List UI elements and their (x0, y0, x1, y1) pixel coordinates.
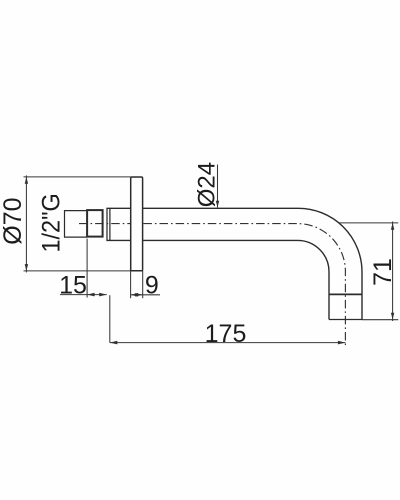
dim 9 line (131, 294, 160, 296)
arrowhead 71 bottom (391, 313, 394, 320)
dim O24 leader (217, 165, 219, 208)
arrowhead 15 right (99, 293, 107, 297)
spout tube outer profile (top line, outer bend, right edge) (143, 208, 362, 319)
svg-text:Ø24: Ø24 (194, 162, 221, 207)
svg-text:1/2"G: 1/2"G (38, 193, 66, 252)
spout tube inner profile (bottom line, inner bend, left edge) (143, 240, 329, 319)
dim 15 line (60, 294, 107, 296)
arrowhead 9 right (135, 293, 143, 297)
arrowhead 15 left (87, 293, 95, 297)
arrowhead 175 left (110, 341, 118, 345)
aerator cap line (329, 293, 362, 295)
dim 71 bottom extension (362, 319, 398, 321)
dim 175 left extension (109, 295, 111, 342)
dim 175 line (110, 342, 346, 344)
dim 15 left extension (86, 239, 88, 298)
svg-text:71: 71 (369, 258, 397, 286)
svg-text:9: 9 (145, 272, 159, 300)
washer disc line 2 (109, 208, 111, 240)
washer disc line 1 (106, 208, 108, 240)
wire: pipe body top line (thread side to flange) (106, 207, 130, 209)
dim 9 extension left (130, 271, 132, 298)
1/2"G bracket leader (65, 211, 88, 238)
svg-text:15: 15 (59, 272, 87, 300)
arrowhead 175 right (338, 341, 346, 345)
dim O70 extension bottom (24, 270, 131, 272)
dim 71 top extension (339, 222, 399, 224)
arrowhead 71 top (391, 223, 394, 230)
arrowhead O70 top (25, 177, 28, 184)
svg-text:Ø70: Ø70 (0, 197, 27, 244)
dim O70 extension top (24, 176, 131, 178)
centerline horizontal + bend + vertical (dash-dot) (79, 224, 345, 347)
arrowhead O70 bottom (25, 264, 28, 271)
thread nipple 1/2"G (87, 210, 103, 237)
wire: pipe body bottom line (thread side to flange) (106, 239, 130, 241)
arrowhead 9 left (131, 293, 139, 297)
svg-text:175: 175 (205, 320, 247, 348)
spout end face (329, 319, 362, 321)
dim 9 extension right (142, 271, 144, 298)
arrowhead O24 (216, 201, 219, 208)
dim O70 line (25, 175, 27, 272)
dim 71 line (392, 222, 394, 322)
flange (wall rosette) (131, 177, 143, 271)
